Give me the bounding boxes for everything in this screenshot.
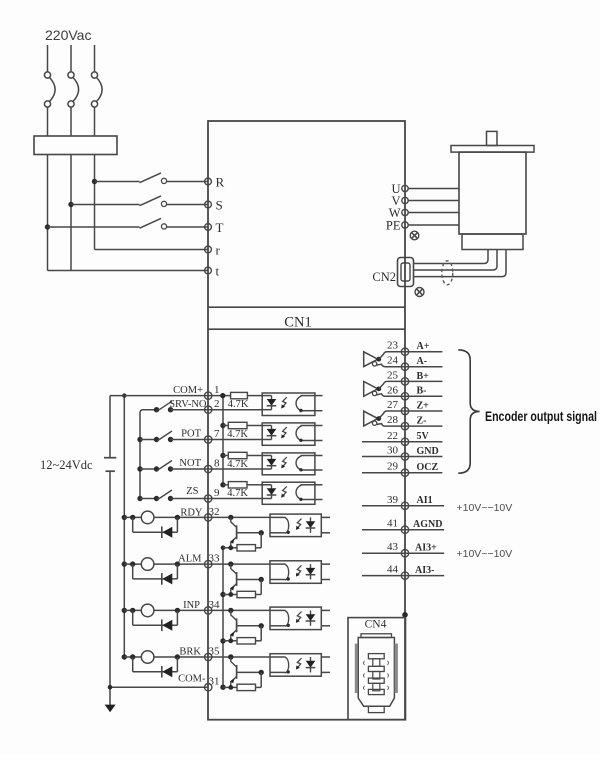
relay row BRK xyxy=(122,654,127,659)
svg-text:34: 34 xyxy=(209,599,221,611)
svg-text:t: t xyxy=(216,264,220,279)
svg-text:12~24Vdc: 12~24Vdc xyxy=(40,458,93,472)
pin 24 terminal xyxy=(401,363,408,370)
terminal V xyxy=(402,197,408,203)
wire stub right pin 26 xyxy=(405,395,442,397)
wire L2 vertical xyxy=(70,155,72,271)
wire stub right pin 24 xyxy=(405,366,442,368)
wire stub right pin 23 xyxy=(405,351,442,353)
svg-text:2: 2 xyxy=(214,398,220,410)
wire stub left pin 39 xyxy=(362,505,405,507)
emitter wire + resistor ALM xyxy=(223,594,237,596)
svg-text:S: S xyxy=(216,198,223,213)
svg-text:A-: A- xyxy=(417,356,428,367)
svg-text:44: 44 xyxy=(387,564,399,576)
svg-text:4.7K: 4.7K xyxy=(227,429,248,440)
svg-text:32: 32 xyxy=(209,506,220,518)
pin 32 terminal xyxy=(205,514,212,521)
resistor R1 4.7K xyxy=(231,392,248,398)
wire COM+ rail (relay rows) xyxy=(123,396,125,657)
transistor Q-ALM xyxy=(231,564,237,574)
pin 9 terminal xyxy=(205,495,212,502)
breaker CB1 upper contact xyxy=(44,72,50,78)
terminal t xyxy=(205,267,212,274)
pin 44 terminal xyxy=(401,572,408,579)
svg-text:1: 1 xyxy=(214,384,220,396)
wire stub right pin 41 xyxy=(405,529,444,531)
optocoupler U-RDY (output) xyxy=(270,514,321,537)
svg-text:AI3+: AI3+ xyxy=(415,543,437,554)
optocoupler U-BRK (output) xyxy=(270,654,321,677)
svg-text:CN1: CN1 xyxy=(284,315,311,331)
pin 35 terminal xyxy=(205,653,212,660)
optocoupler U4 xyxy=(262,482,315,504)
wire stub left pin 29 xyxy=(362,472,405,474)
svg-text:31: 31 xyxy=(209,676,220,688)
optocoupler U-INP (output) xyxy=(270,607,321,630)
wire L1 top feed xyxy=(47,45,49,72)
breaker CB1 arc xyxy=(50,78,55,102)
wire L3 top feed xyxy=(94,45,96,72)
wire U to motor xyxy=(408,188,459,190)
svg-text:Encoder output signal: Encoder output signal xyxy=(485,408,597,424)
pin 27 terminal xyxy=(401,407,408,414)
pin 30 terminal xyxy=(401,453,408,460)
wire stub left pin 41 xyxy=(362,529,405,531)
junction rail/ZS xyxy=(137,496,142,501)
terminal PE xyxy=(402,222,408,228)
svg-text:41: 41 xyxy=(387,518,398,530)
svg-text:22: 22 xyxy=(387,430,398,442)
wire rail to NOT switch xyxy=(140,468,157,470)
pin 2 terminal xyxy=(205,406,212,413)
wire pin2 to opto xyxy=(208,409,262,411)
wire rail to ZS switch xyxy=(140,498,157,500)
wire COM+ to pin 1 xyxy=(110,395,208,397)
wire battery rail lower to ground xyxy=(109,471,111,705)
svg-text:4.7K: 4.7K xyxy=(228,399,249,410)
svg-text:ZS: ZS xyxy=(186,486,198,497)
wire stub right pin 39 xyxy=(405,505,444,507)
svg-text:BRK: BRK xyxy=(179,647,201,658)
wire L1 into filter xyxy=(47,107,49,136)
earth screw symbol below CN2 xyxy=(415,288,424,297)
wire L2 into filter xyxy=(70,107,72,136)
ferrite ring (dashed ellipse) on CN2 cables xyxy=(442,261,453,285)
svg-text:43: 43 xyxy=(387,541,399,553)
junction rail/NOT xyxy=(137,466,142,471)
svg-text:A+: A+ xyxy=(417,341,430,352)
wire COM- to pin 31 xyxy=(110,686,208,688)
contactor switch on R line + wire to R xyxy=(95,181,140,183)
wire r line xyxy=(95,249,209,251)
svg-text:RDY: RDY xyxy=(180,507,203,518)
junction COM+ / relay rail xyxy=(122,393,126,397)
line driver triangle for pins at 381.4/396.3 xyxy=(364,381,378,396)
CN1 band top line xyxy=(208,306,405,308)
wire PE to motor xyxy=(408,224,459,226)
wire pin to opto row4 xyxy=(208,498,262,500)
svg-text:POT: POT xyxy=(181,429,201,440)
wire stub right pin 44 xyxy=(405,575,444,577)
svg-text:8: 8 xyxy=(214,458,220,470)
svg-text:5V: 5V xyxy=(417,431,430,442)
switch POT + wire to pin POT xyxy=(154,437,159,442)
wire V to motor xyxy=(408,200,459,202)
junction L3/R xyxy=(92,179,97,184)
pin 23 terminal xyxy=(401,348,408,355)
transistor Q-RDY xyxy=(231,517,237,527)
svg-text:R: R xyxy=(216,175,225,190)
emitter wire + resistor RDY xyxy=(223,547,237,549)
terminal T xyxy=(205,224,212,231)
svg-text:AI3-: AI3- xyxy=(415,565,434,576)
terminal U xyxy=(402,185,408,191)
svg-text:B-: B- xyxy=(417,386,427,397)
svg-text:INP: INP xyxy=(183,600,200,611)
svg-text:CN2: CN2 xyxy=(372,270,396,284)
wire stub right pin 43 xyxy=(405,552,444,554)
junction COM- / battery rail xyxy=(108,685,113,690)
svg-text:PE: PE xyxy=(386,219,401,233)
servo drive block outline xyxy=(208,121,405,720)
transistor Q-BRK xyxy=(231,657,237,667)
svg-text:GND: GND xyxy=(417,446,439,457)
svg-text:Z-: Z- xyxy=(417,416,427,427)
wire W to motor xyxy=(408,212,459,214)
relay row INP xyxy=(122,608,127,613)
emitter wire + resistor BRK xyxy=(223,686,237,688)
svg-text:29: 29 xyxy=(387,461,399,473)
CN4 pin ladder xyxy=(368,654,384,659)
motor shaft xyxy=(487,131,498,145)
emitter wire + resistor INP xyxy=(223,640,237,642)
svg-text:220Vac: 220Vac xyxy=(45,27,91,43)
brace encoder signals xyxy=(458,350,479,473)
pin 8 terminal xyxy=(205,465,212,472)
ground symbol xyxy=(105,705,116,713)
svg-text:SRV-NO: SRV-NO xyxy=(169,399,207,410)
terminal W xyxy=(402,209,408,215)
CN2 cable 3 xyxy=(414,250,507,277)
svg-text:Z+: Z+ xyxy=(417,400,430,411)
wire stub left pin 22 xyxy=(362,441,405,443)
svg-text:r: r xyxy=(216,243,221,258)
svg-text:7: 7 xyxy=(214,428,220,440)
wire internal COM- rail xyxy=(222,548,224,687)
wire stub right pin 25 xyxy=(405,380,442,382)
svg-text:B+: B+ xyxy=(417,371,430,382)
junction on bus above CN4 xyxy=(402,612,408,618)
wire rail to POT switch xyxy=(140,439,157,441)
CN4 plug bottom tab xyxy=(368,706,384,712)
pin 41 terminal xyxy=(401,526,408,533)
junction L2/S xyxy=(68,202,73,207)
resistor R2 4.7K xyxy=(228,422,247,428)
output row ALM : pin wire xyxy=(208,563,270,565)
svg-text:AGND: AGND xyxy=(413,519,442,530)
junction L1/T xyxy=(45,224,50,229)
terminal r xyxy=(205,246,212,253)
optocoupler U2 xyxy=(262,423,315,445)
wire stub right pin 30 xyxy=(405,456,442,458)
wire L2 top feed xyxy=(70,45,72,72)
wire pin to opto row2 xyxy=(208,439,262,441)
svg-text:COM-: COM- xyxy=(178,674,206,685)
CN1 band bottom line xyxy=(208,328,405,330)
line driver triangle for pins at 351.7/366.7 xyxy=(364,352,378,367)
connector CN2 inner xyxy=(401,263,410,281)
optocoupler U1 (SRV-NO) xyxy=(262,393,315,416)
pin 31 terminal xyxy=(205,684,212,691)
breaker CB3 arc xyxy=(97,78,102,102)
breaker CB2 upper contact xyxy=(68,72,74,78)
svg-text:30: 30 xyxy=(387,445,399,457)
output row INP : pin wire xyxy=(208,609,270,611)
wire L1 vertical xyxy=(47,155,49,271)
breaker CB3 upper contact xyxy=(91,72,97,78)
resistor R4 4.7K xyxy=(228,482,247,488)
pin 34 terminal xyxy=(205,607,212,614)
motor M body xyxy=(459,152,526,234)
breaker CB2 arc xyxy=(73,78,78,102)
input row 1 : COM+/SRV-NO opto xyxy=(208,395,231,397)
CN4 tiny pin marks xyxy=(364,661,365,665)
svg-text:COM+: COM+ xyxy=(173,385,203,396)
junction rail/POT xyxy=(137,437,142,442)
pin 29 terminal xyxy=(401,469,408,476)
wire stub left pin 44 xyxy=(362,575,405,577)
svg-text:33: 33 xyxy=(209,553,221,565)
svg-text:28: 28 xyxy=(387,414,399,426)
wire L3 vertical xyxy=(94,155,96,250)
pin 7 terminal xyxy=(205,436,212,443)
wire pin to opto row3 xyxy=(208,468,262,470)
battery 12~24Vdc plates xyxy=(104,457,116,459)
svg-text:+10V~−10V: +10V~−10V xyxy=(457,502,513,514)
relay row ALM xyxy=(122,561,127,566)
output row RDY : pin wire xyxy=(208,516,270,518)
pin 43 terminal xyxy=(401,550,408,557)
pin 25 terminal xyxy=(401,378,408,385)
CN2 cable 2 xyxy=(414,250,498,271)
svg-text:35: 35 xyxy=(209,646,221,658)
wire stub left pin 30 xyxy=(362,456,405,458)
filter block FL1 xyxy=(34,136,117,155)
CN4 box xyxy=(348,618,406,720)
svg-text:9: 9 xyxy=(214,487,220,499)
resistor R3 4.7K xyxy=(228,452,247,458)
contactor switch on S line + wire to S xyxy=(71,204,140,206)
svg-text:27: 27 xyxy=(387,399,399,411)
breaker CB3 lower contact xyxy=(91,101,97,107)
wire L3 into filter xyxy=(94,107,96,136)
wire stub right pin 27 xyxy=(405,410,442,412)
wire stub right pin 22 xyxy=(405,441,442,443)
wire stub right pin 29 xyxy=(405,472,442,474)
svg-text:NOT: NOT xyxy=(179,458,201,469)
CN2 cable 1 xyxy=(414,250,489,264)
input row 4 resistor feed xyxy=(220,482,225,487)
line driver triangle for pins at 411.0/426.1 xyxy=(364,411,378,426)
input row 3 resistor feed xyxy=(220,453,225,458)
svg-text:CN4: CN4 xyxy=(365,619,387,631)
pin 26 terminal xyxy=(401,393,408,400)
switch ZS + wire to pin ZS xyxy=(154,496,159,501)
svg-text:+10V~−10V: +10V~−10V xyxy=(457,548,513,560)
terminal S xyxy=(205,201,212,208)
wire SRV-NO rail corner xyxy=(140,410,157,499)
motor top cap xyxy=(451,146,534,153)
wire stub left pin 43 xyxy=(362,552,405,554)
motor bottom flange xyxy=(462,234,523,250)
optocoupler U-ALM (output) xyxy=(270,561,321,584)
svg-text:24: 24 xyxy=(387,355,399,367)
svg-text:25: 25 xyxy=(387,369,399,381)
svg-text:AI1: AI1 xyxy=(417,495,433,506)
pin 1 terminal xyxy=(205,392,212,399)
wire stub right pin 28 xyxy=(405,425,442,427)
pin 33 terminal xyxy=(205,560,212,567)
svg-text:OCZ: OCZ xyxy=(417,462,439,473)
contactor switch on T line + wire to T xyxy=(48,226,140,228)
breaker CB1 lower contact xyxy=(44,101,50,107)
switch SRV-NO + wire to pin 2 xyxy=(154,407,159,412)
svg-text:26: 26 xyxy=(387,384,399,396)
pin 22 terminal xyxy=(401,438,408,445)
terminal R xyxy=(205,178,212,185)
pin 28 terminal xyxy=(401,422,408,429)
svg-text:T: T xyxy=(216,220,224,235)
relay row RDY xyxy=(122,515,127,520)
connector CN2 outer xyxy=(398,258,414,287)
CN4 side rails xyxy=(355,644,358,693)
switch NOT + wire to pin NOT xyxy=(154,466,159,471)
pin 39 terminal xyxy=(401,502,408,509)
input row 2 resistor feed xyxy=(220,423,225,428)
output row BRK : pin wire xyxy=(208,656,270,658)
wire battery rail upper xyxy=(109,396,111,458)
breaker CB2 lower contact xyxy=(68,101,74,107)
wire internal COM+ feed rail xyxy=(222,396,224,485)
optocoupler U3 xyxy=(262,453,315,475)
svg-text:ALM: ALM xyxy=(178,554,202,565)
svg-text:4.7K: 4.7K xyxy=(227,488,248,499)
CN4 plug outline xyxy=(361,634,392,638)
transistor Q-INP xyxy=(231,610,237,620)
svg-text:23: 23 xyxy=(387,340,399,352)
earth screw symbol near PE xyxy=(410,231,419,240)
wire t line xyxy=(48,270,209,272)
svg-text:39: 39 xyxy=(387,494,399,506)
